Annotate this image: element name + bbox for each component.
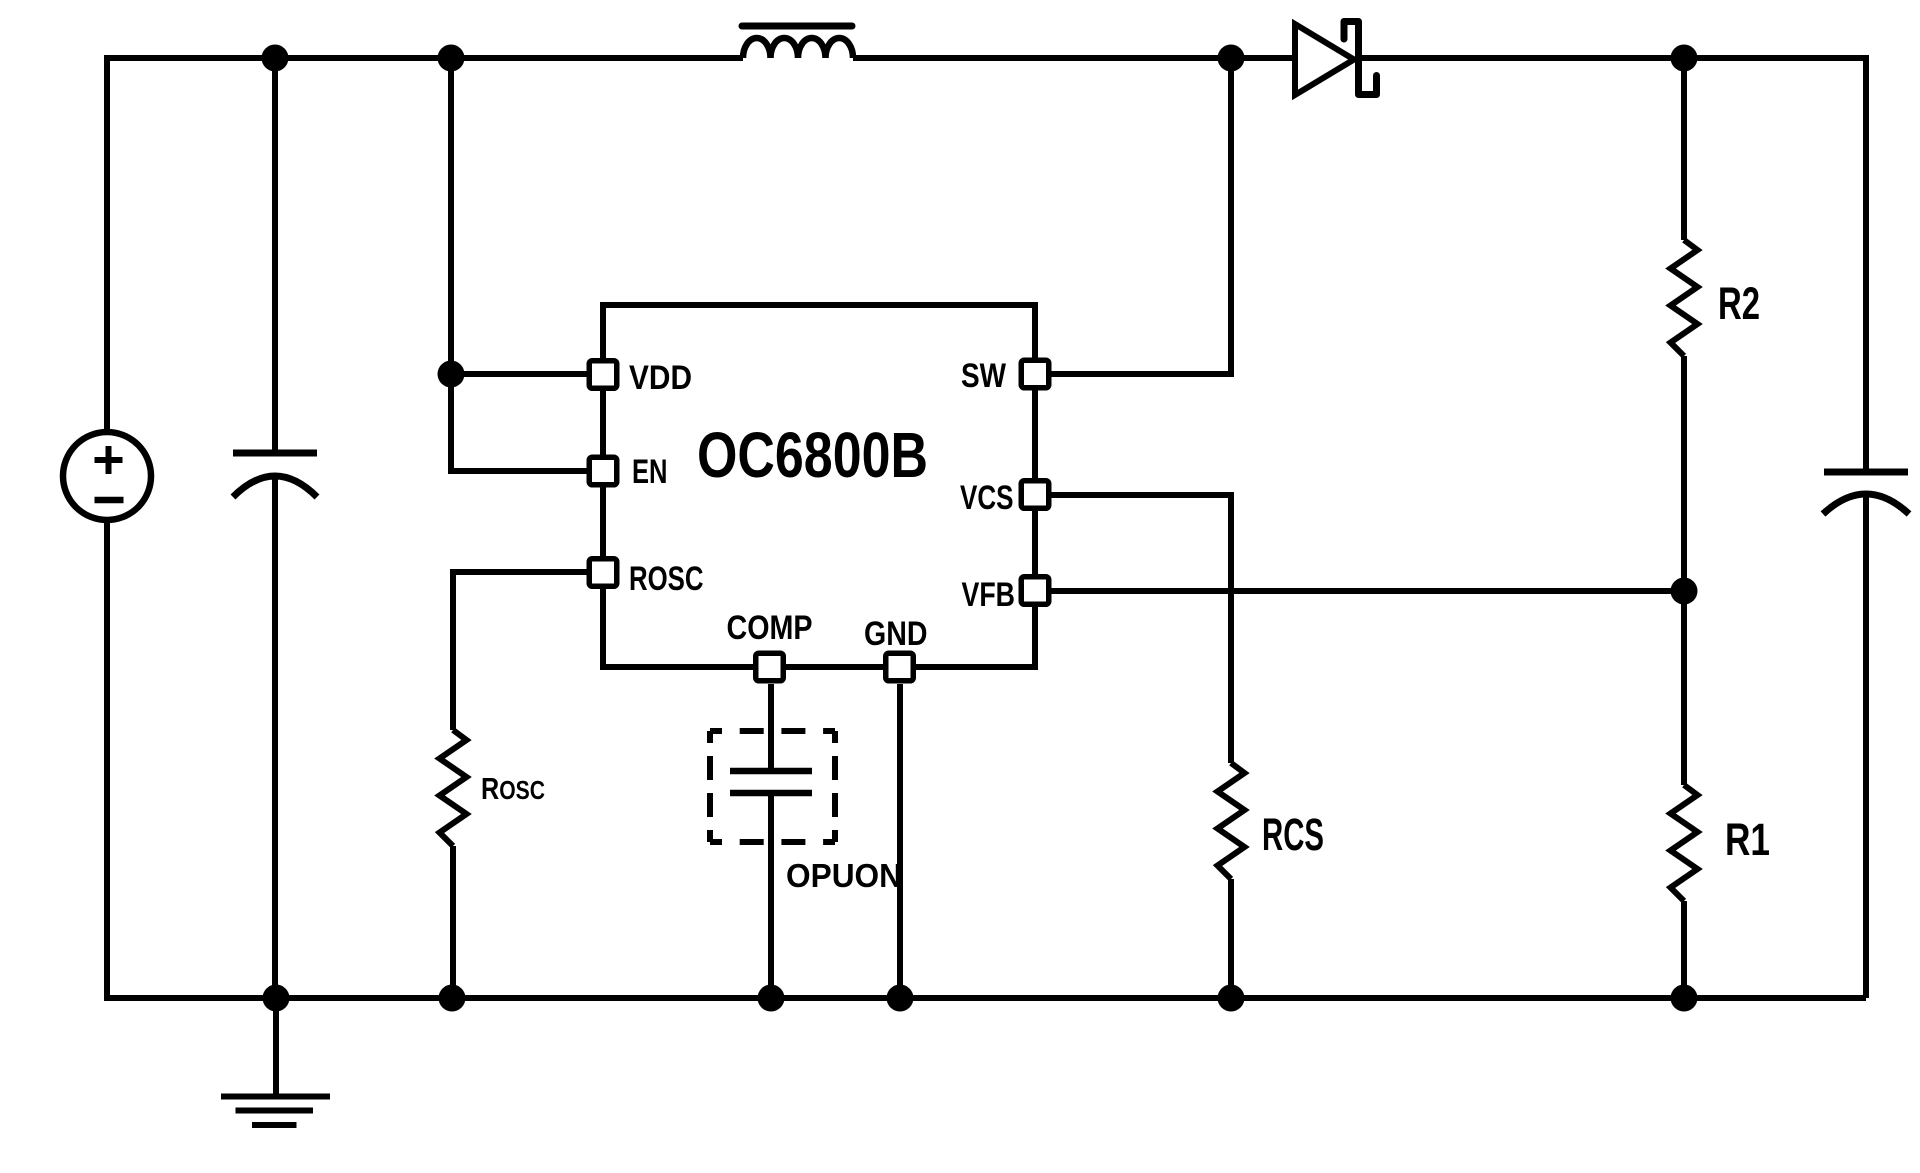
pin EN [589,457,617,485]
wire: to VDD pin [451,371,587,377]
resistor R1 [1671,785,1698,901]
voltage source VS [63,432,151,520]
svg-text:SW: SW [961,357,1006,395]
wire: VCS pin to RCS [1051,495,1231,763]
resistor Rosc [440,730,467,846]
node: top rail / input cap [262,45,289,72]
svg-text:VCS: VCS [960,479,1014,517]
node: bottom rail / Rosc [439,985,466,1012]
resistor R2 [1671,240,1698,356]
pin VDD [589,361,617,389]
wire: VFB pin to divider node [1051,588,1684,594]
node: top rail / VDD feed [438,45,465,72]
node: top rail / R2 [1671,45,1698,72]
svg-text:ROSC: ROSC [481,771,545,806]
capacitor COUT [1823,472,1909,514]
svg-text:VFB: VFB [962,576,1016,614]
svg-text:COMP: COMP [727,609,813,647]
capacitor OPUON [730,771,812,793]
node: VFB / divider junction [1671,578,1698,605]
svg-text:OPUON: OPUON [786,857,902,894]
wire: SW pin to top rail [1051,58,1231,374]
wire: VFB node to R1 [1681,591,1687,785]
pin VFB [1021,577,1049,605]
pin ROSC [589,559,617,587]
wire: R2 to VFB node [1681,356,1687,591]
svg-text:GND: GND [864,615,928,653]
op-amp U1 OC6800B body [603,305,1035,667]
capacitor CIN [233,453,317,497]
svg-text:EN: EN [632,453,668,491]
resistor RCS [1218,763,1245,879]
wire: OPUON cap to bottom rail [768,795,774,998]
node: bottom rail / R1 [1671,985,1698,1012]
pin SW [1021,360,1049,388]
pin COMP [756,653,784,681]
node: top rail / SW [1218,45,1245,72]
node: VDD / EN junction [438,361,465,388]
svg-text:R2: R2 [1718,278,1760,329]
svg-text:VDD: VDD [629,359,692,397]
wire: input cap bottom lead [272,477,278,998]
dashed box around OPUON cap [710,731,835,842]
wire: GND pin to bottom rail [897,684,903,998]
pin GND [886,653,914,681]
ground [221,998,330,1125]
wire: top rail to R2 [1681,58,1687,240]
svg-text:OC6800B: OC6800B [697,419,928,491]
wire: Rosc to bottom rail [450,846,456,998]
wire: top rail diode to right edge, down to output cap [1359,58,1867,469]
wire: right edge below output cap [1863,496,1869,998]
wire: left column top + top rail to inductor [107,58,743,433]
svg-text:R1: R1 [1725,814,1770,865]
svg-text:ROSC: ROSC [629,560,704,598]
inductor L1 [742,26,853,58]
wire: COMP pin to OPUON cap [768,684,774,769]
node: bottom rail / RCS [1218,985,1245,1012]
wire: input cap top lead [272,58,278,451]
wire: left column bottom + bottom rail [107,520,1866,998]
pin VCS [1021,481,1049,509]
wire: R1 to bottom rail [1681,901,1687,998]
wire: to EN pin [451,374,587,471]
wire: VDD feed from top rail [448,58,454,374]
node: bottom rail / ground [263,985,290,1012]
wire: RCS to bottom rail [1228,879,1234,998]
wire: top rail inductor to diode [853,55,1295,61]
node: bottom rail / GND pin [887,985,914,1012]
node: bottom rail / OPUON [758,985,785,1012]
wire: ROSC pin to resistor [453,572,587,730]
diode D1 (schottky) [1295,22,1377,96]
svg-text:RCS: RCS [1262,809,1324,860]
